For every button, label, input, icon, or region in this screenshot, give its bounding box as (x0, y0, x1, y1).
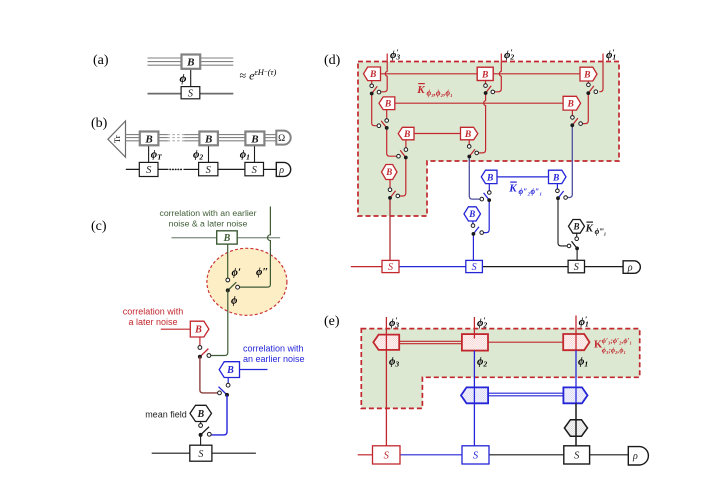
switch I (d) (587, 83, 591, 87)
wire switchK to switchL black (d) (558, 198, 567, 246)
svg-text:(d): (d) (324, 53, 341, 68)
svg-text:a later noise: a later noise (128, 317, 177, 327)
detector rho (e) (628, 447, 648, 465)
svg-text:ϕ′₃;ϕ′₂,ϕ′₁: ϕ′₃;ϕ′₂,ϕ′₁ (602, 337, 632, 345)
trace triangle Tr (108, 121, 126, 157)
single correlation wire E2-E3 (e) (488, 341, 563, 343)
svg-text:S: S (252, 165, 258, 176)
mean-field switch (c) (199, 424, 203, 428)
system wire black mid (e) (489, 454, 564, 456)
row2 wire (d) (395, 102, 563, 104)
svg-text:B: B (196, 409, 204, 420)
gate B1 (b) (140, 132, 159, 146)
row1 wire right (d) (493, 73, 580, 75)
gate B pentagon right P5 (d) (461, 127, 478, 140)
svg-text:B: B (481, 70, 488, 80)
system wire segments (b) (126, 168, 276, 170)
svg-text:B: B (144, 133, 152, 145)
svg-text:noise & a later noise: noise & a later noise (169, 219, 248, 229)
svg-text:K: K (508, 183, 517, 195)
stub hex red (d) (389, 180, 391, 189)
gate B red pentagon (c) (190, 321, 209, 337)
control wire B3-S3 (b) (254, 145, 256, 162)
wire switchF to switchG blue (d) (469, 157, 480, 200)
label Kbar red (d) (416, 84, 452, 98)
gate B black hexagon (c) (190, 405, 212, 421)
gate S blue (e) (462, 446, 489, 464)
svg-text:correlation with an earlier: correlation with an earlier (159, 208, 256, 218)
svg-text:S: S (472, 262, 477, 273)
gate S (c) (190, 445, 212, 461)
svg-text:B: B (226, 365, 234, 376)
selected noise wire down (c) (211, 290, 228, 355)
wire phi1 black (e) (575, 403, 577, 445)
system wire black mid (d) (482, 266, 568, 268)
svg-text:B: B (486, 173, 493, 183)
svg-text:S: S (473, 451, 479, 462)
wire annotation to B red (c) (161, 328, 191, 330)
svg-text:B: B (552, 173, 559, 183)
gate S1 (b) (139, 162, 158, 176)
svg-text:B: B (204, 133, 212, 145)
wire B blue to annotation (c) (240, 369, 268, 371)
wire B to phi-prime terminal (c) (227, 244, 229, 278)
maroon wire to blue switch (c) (200, 357, 218, 393)
wire switchE to switchF with hop (d) (478, 93, 485, 153)
stub B2 (d) (485, 81, 487, 84)
wire switchG to switchH (d) (484, 200, 490, 233)
stub BP2 (d) (556, 184, 558, 190)
svg-text:B: B (384, 100, 391, 110)
gate noise pentagon E1 (e) (373, 335, 399, 350)
bath wire horizontal (c) (172, 237, 281, 239)
svg-text:mean field: mean field (145, 410, 187, 420)
system wire (a) (148, 93, 234, 95)
gate B pentagon right PR1 (d) (580, 67, 597, 81)
gate B green (c) (217, 231, 238, 244)
svg-text:ϕ′: ϕ′ (232, 267, 241, 279)
svg-text:B: B (194, 325, 202, 336)
gate B2 (b) (199, 132, 218, 146)
wire switch to S (c) (200, 435, 202, 445)
bath triple wire left (a) (148, 58, 182, 65)
gate B pentagon blue BP2 (d) (549, 170, 567, 183)
dotted system segment (b) (170, 168, 183, 170)
svg-text:B: B (464, 130, 471, 140)
svg-text:ϕ″: ϕ″ (256, 266, 268, 278)
wire phi-prime-1 (d) (599, 54, 603, 92)
svg-text:B: B (403, 130, 410, 140)
svg-text:B: B (369, 70, 376, 80)
svg-text:ϕ: ϕ (231, 295, 238, 307)
gate B3 (b) (245, 132, 264, 146)
label Kbar black (d) (585, 222, 607, 236)
svg-text:S: S (188, 89, 194, 100)
gate S blue (d) (466, 260, 483, 272)
label Kbar blue (d) (508, 182, 542, 196)
red switch (c) (198, 346, 202, 350)
wire switchH to S blue (d) (472, 234, 474, 261)
gate S (a) (181, 87, 200, 99)
stub P4 (d) (405, 140, 407, 148)
green noise region (e) (361, 329, 639, 409)
system wire blue (d) (399, 266, 466, 268)
switch B (d) (385, 119, 389, 123)
svg-text:ϕ: ϕ (180, 71, 187, 85)
switch F (d) (467, 145, 471, 149)
svg-text:B: B (385, 167, 392, 177)
stub PR2 (d) (571, 110, 573, 116)
svg-text:S: S (388, 262, 393, 273)
svg-text:K: K (416, 84, 425, 96)
wire phi-prime-3 with hop (d) (381, 54, 387, 92)
svg-text:(c): (c) (91, 219, 107, 234)
svg-text:S: S (206, 165, 212, 176)
blue row wire (d) (497, 176, 549, 178)
stub BP1 (d) (488, 184, 490, 191)
control wire B-S (a) (190, 69, 192, 87)
svg-text:correlation with: correlation with (123, 307, 184, 317)
gate B pentagon P3 (d) (379, 97, 395, 110)
gate B square (d) (477, 67, 493, 80)
svg-text:S: S (146, 165, 152, 176)
svg-text:B: B (468, 209, 475, 219)
svg-text:B: B (583, 70, 590, 80)
wire switchI to switchJ (d) (582, 93, 588, 124)
svg-text:Tr: Tr (112, 135, 122, 143)
svg-text:ϕ‴₁: ϕ‴₁ (595, 227, 607, 236)
row1 wire left (d) (381, 73, 478, 75)
switch A (d) (370, 84, 374, 88)
stub P1 (d) (371, 81, 373, 85)
detector rho (b) (276, 162, 290, 176)
stub P3 (d) (386, 110, 388, 119)
gate B hexagon blue (d) (464, 207, 481, 221)
gate noise hexagon black E6 (e) (564, 420, 587, 436)
svg-text:B: B (572, 222, 579, 232)
switch K (d) (556, 189, 560, 193)
system wire black right (e) (590, 454, 629, 456)
wire phi2 top (e) (473, 317, 475, 339)
gate B pentagon P1 (d) (364, 67, 381, 81)
system wire red (e) (358, 454, 373, 456)
gate noise box E2 (e) (462, 334, 488, 351)
wire phi2 blue (e) (473, 351, 475, 446)
detector Omega (b) (276, 131, 290, 145)
gate B (a) (182, 55, 201, 69)
gate B hexagon black (d) (569, 220, 585, 234)
svg-text:S: S (574, 262, 579, 273)
double correlation wire E1-E2 (e) (399, 340, 462, 342)
wire phi1 top (e) (575, 316, 577, 351)
double correlation wire E4-E5 blue (e) (488, 392, 563, 394)
wire phi3 vertical (e) (385, 317, 387, 446)
svg-text:S: S (574, 451, 580, 462)
system wire red (d) (351, 266, 382, 268)
gate noise pentagon blue E5 (e) (563, 387, 587, 403)
wire switchJ to switchK blue (d) (567, 125, 572, 197)
svg-text:ϕ₃,ϕ₂,ϕ₁: ϕ₃,ϕ₂,ϕ₁ (427, 89, 453, 98)
switch D (d) (388, 188, 392, 192)
svg-text:S: S (198, 449, 203, 460)
svg-text:ρ: ρ (278, 165, 284, 176)
gate S2 (b) (199, 162, 218, 175)
green noise region (d) (358, 62, 619, 217)
svg-text:B: B (567, 100, 574, 110)
stub B black to terminal (c) (200, 422, 202, 424)
bath triple wire right (a) (200, 58, 233, 65)
gate S black (e) (564, 446, 590, 464)
wire switchC to switchD (d) (400, 158, 406, 197)
gate S red (d) (382, 260, 399, 272)
phi-doubleprime wire with hop (c) (240, 207, 271, 288)
svg-text:B: B (223, 233, 231, 244)
switch J (d) (571, 116, 575, 120)
wire switchL to S black (d) (576, 248, 578, 260)
wire phi1 blue (e) (575, 350, 577, 403)
bath triple wires (b) (126, 135, 277, 141)
system wire black right (d) (585, 266, 624, 268)
svg-text:(e): (e) (324, 314, 340, 329)
row3 wire (d) (414, 133, 461, 135)
stub P5 (d) (468, 140, 470, 145)
svg-text:S: S (384, 451, 390, 462)
gate B pentagon blue BP1 (d) (481, 170, 497, 183)
system wire (c) (152, 452, 256, 454)
svg-text:ϕ₃;ϕ₂,ϕ₁: ϕ₃;ϕ₂,ϕ₁ (602, 346, 626, 354)
stub hex black (d) (576, 233, 578, 237)
switch C (d) (404, 148, 408, 152)
gate B hexagon red (d) (382, 165, 398, 180)
gate S3 (b) (245, 162, 264, 175)
svg-text:K: K (585, 223, 594, 235)
svg-text:ρ: ρ (632, 451, 638, 462)
label K bb (e) (594, 337, 632, 354)
blue switch (c) (226, 383, 230, 387)
svg-text:B: B (186, 57, 194, 69)
switch in ellipse (c) (226, 278, 230, 282)
gate S red (e) (373, 446, 401, 464)
noise ellipse (c) (207, 248, 287, 315)
svg-text:correlation with: correlation with (243, 344, 304, 354)
wire switchB to switchC (d) (387, 128, 397, 156)
wire switchD to S red (d) (389, 198, 391, 261)
blue wire to mean-field switch (c) (211, 395, 227, 435)
gate B blue pentagon (c) (219, 362, 239, 378)
dashed bath segment (b) (168, 135, 185, 141)
svg-text:ρ: ρ (627, 262, 633, 273)
gate B pentagon right PR2 (d) (563, 96, 581, 110)
svg-text:(a): (a) (93, 53, 109, 68)
stub hex blue (d) (472, 221, 474, 224)
stub PR1 (d) (587, 81, 589, 83)
svg-text:an earlier noise: an earlier noise (243, 354, 305, 364)
system wire blue (e) (400, 454, 462, 456)
switch G (d) (488, 191, 492, 195)
switch E (d) (484, 84, 488, 88)
stub B blue to terminal (c) (227, 378, 229, 384)
wire switchA to switchB (d) (372, 94, 377, 126)
gate noise pentagon blue E4 (e) (461, 387, 488, 403)
stub B red to terminal (c) (199, 337, 201, 346)
gate S black (d) (568, 260, 584, 273)
svg-text:B: B (250, 133, 258, 145)
control wire B1-S1 (b) (148, 145, 150, 162)
control wire B2-S2 (b) (208, 145, 210, 162)
switch H (d) (471, 224, 475, 228)
svg-text:(b): (b) (91, 116, 108, 131)
gate noise pentagon E3 (e) (563, 334, 589, 350)
switch L (d) (575, 237, 579, 241)
svg-text:Ω: Ω (278, 134, 285, 144)
detector rho (d) (623, 261, 640, 274)
wire phi-prime-2 with hop (d) (495, 54, 502, 92)
svg-text:ϕ″₂ϕ″₁: ϕ″₂ϕ″₁ (519, 187, 543, 196)
gate B pentagon P4 (d) (398, 127, 414, 140)
